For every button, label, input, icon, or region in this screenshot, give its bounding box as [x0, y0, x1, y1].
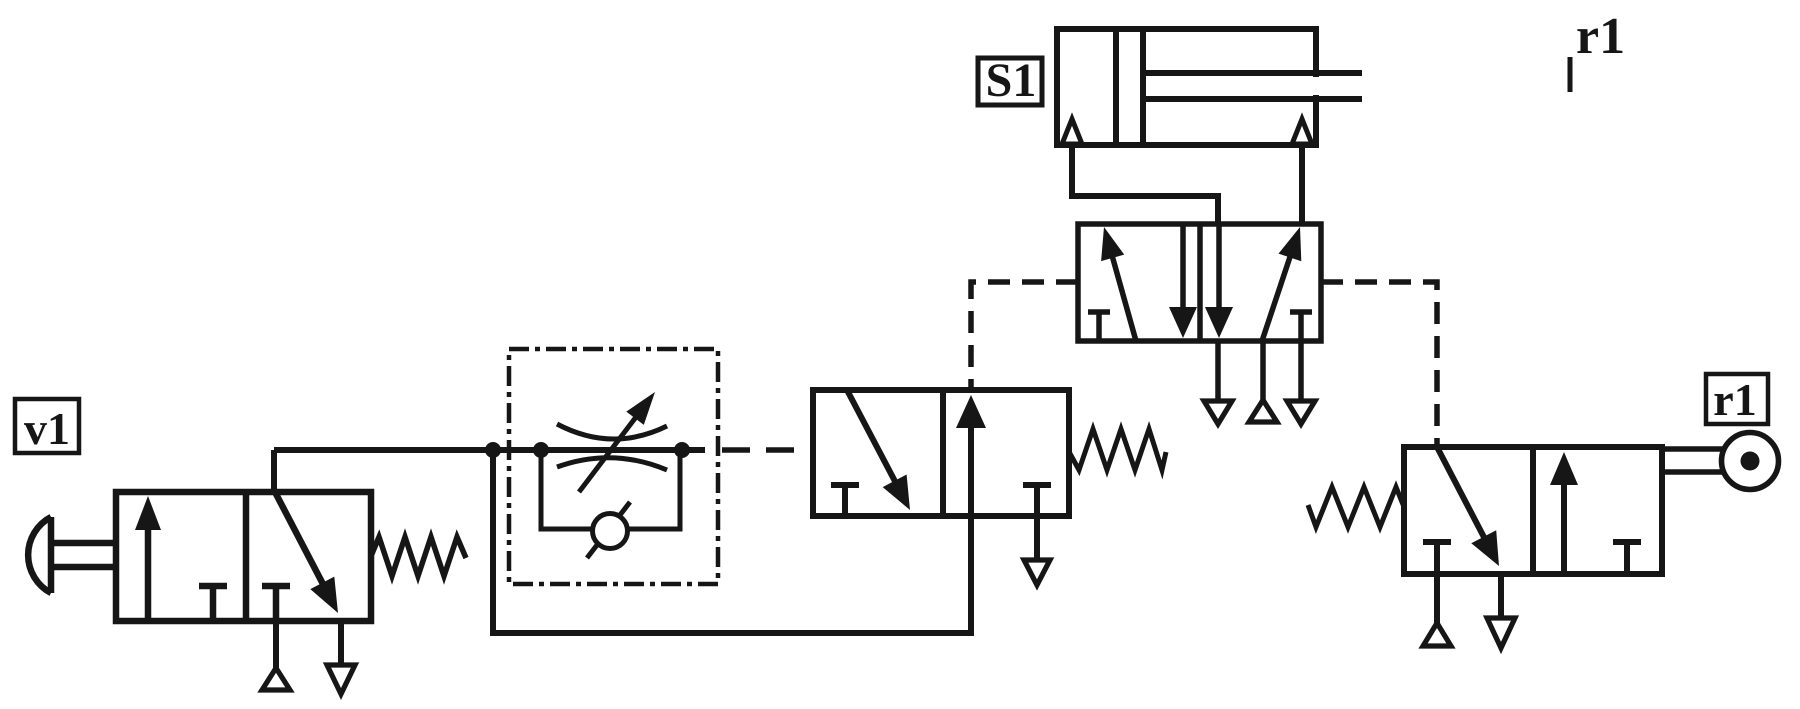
r1 roller lever rod	[1660, 446, 1723, 452]
cylinder S1 piston rod	[1143, 70, 1362, 76]
pilot 3/2 valve exhaust triangle	[1024, 560, 1050, 585]
cylinder S1 piston	[1113, 29, 1119, 145]
label r1	[1706, 374, 1768, 424]
v1 valve left box up arrow	[145, 515, 152, 621]
r1 valve division	[1530, 447, 1536, 574]
throttle adjustment arrow	[579, 407, 644, 493]
label v1	[15, 399, 79, 453]
r1 valve left box supply T	[1423, 539, 1451, 545]
cylinder S1 body	[1057, 29, 1316, 145]
pilot 3/2 valve left box blocked port T	[831, 482, 859, 488]
v1 valve left box blocked port T	[199, 583, 227, 590]
v1 exhaust line below	[338, 621, 344, 665]
v1 push button rod	[51, 540, 116, 547]
flow control enclosure (dash-dot)	[509, 349, 718, 584]
5/2 valve exhaust triangle port 3	[1287, 401, 1315, 424]
r1 supply line below	[1434, 574, 1440, 623]
label S1	[978, 58, 1042, 105]
pilot 3/2 valve right box exhaust T	[1023, 482, 1051, 488]
r1 valve right box up arrow	[1561, 470, 1567, 574]
check valve seat	[587, 502, 630, 558]
check valve ball	[593, 514, 628, 549]
throttle left port dot	[533, 442, 549, 458]
r1 valve left box diagonal arrow	[1437, 447, 1491, 550]
throttle upper arc	[557, 424, 667, 439]
r1 supply triangle	[1423, 623, 1451, 646]
v1 push button actuator arc	[28, 517, 51, 593]
pilot 3/2 valve left box diagonal arrow	[847, 390, 902, 494]
5/2 valve right pilot line (dashed)	[1321, 282, 1437, 447]
v1 supply line below	[273, 621, 279, 668]
v1 valve right box supply T	[262, 583, 290, 590]
v1 exhaust triangle	[327, 665, 355, 694]
v1 valve body	[116, 492, 371, 621]
pilot 3/2 valve right box up arrow	[968, 413, 974, 516]
wire junction to pilot valve supply	[493, 450, 971, 633]
svg-text:v1: v1	[24, 403, 70, 454]
5/2 valve left box down arrow	[1180, 224, 1186, 321]
r1 return spring	[1308, 487, 1404, 527]
pilot 3/2 valve exhaust line	[1034, 516, 1040, 560]
5/2 valve left box blocked port T	[1088, 309, 1110, 315]
v1 output wire up to junction	[271, 450, 277, 492]
5/2 valve division	[1197, 224, 1203, 341]
5/2 valve left pilot line (dashed)	[971, 282, 1078, 389]
5/2 valve exhaust triangle port 5	[1204, 401, 1232, 424]
5/2 impulse valve body	[1078, 224, 1321, 341]
wire left cylinder port to valve 4	[1072, 145, 1218, 226]
5/2 valve right box blocked port T	[1290, 309, 1312, 315]
cylinder S1 rod gap in right wall	[1310, 77, 1322, 95]
cylinder S1 left port arrow	[1062, 119, 1082, 144]
5/2 valve exhaust line port 5	[1215, 341, 1221, 401]
v1 valve division	[243, 492, 250, 621]
5/2 valve right box diagonal arrow	[1262, 244, 1294, 341]
svg-text:r1: r1	[1713, 374, 1756, 425]
throttle lower arc	[557, 458, 667, 470]
v1 supply triangle	[262, 668, 290, 690]
main line v1 output through throttle	[274, 447, 705, 453]
r1 exhaust triangle	[1487, 618, 1515, 648]
junction node dot	[485, 442, 501, 458]
pilot 3/2 valve body	[813, 390, 1069, 516]
r1 roller axle dot	[1741, 452, 1760, 471]
throttle right port dot	[674, 442, 690, 458]
5/2 valve supply triangle port 1	[1249, 400, 1277, 422]
v1 valve right box diagonal arrow	[275, 492, 329, 596]
svg-text:r1: r1	[1576, 8, 1625, 65]
pilot 3/2 valve return spring	[1068, 429, 1166, 470]
5/2 valve exhaust line port 3	[1298, 341, 1304, 401]
5/2 valve left box diagonal arrow	[1109, 244, 1136, 341]
v1 return spring	[371, 537, 466, 576]
pilot 3/2 valve division	[940, 390, 946, 516]
5/2 valve right box down arrow	[1216, 224, 1222, 321]
r1 valve right box blocked port T	[1613, 539, 1641, 545]
r1 valve body	[1404, 447, 1662, 574]
5/2 valve supply line port 1	[1260, 341, 1266, 400]
wire right cylinder port to valve 2	[1299, 145, 1305, 226]
check valve bypass line	[541, 450, 680, 529]
svg-text:S1: S1	[986, 54, 1037, 107]
r1 roller wheel	[1722, 433, 1779, 490]
r1 exhaust line below	[1498, 574, 1504, 618]
stroke position marker tick	[1568, 57, 1573, 92]
dashed pilot line throttle to 3/2 valve	[722, 447, 813, 453]
cylinder S1 right port arrow	[1292, 119, 1312, 144]
